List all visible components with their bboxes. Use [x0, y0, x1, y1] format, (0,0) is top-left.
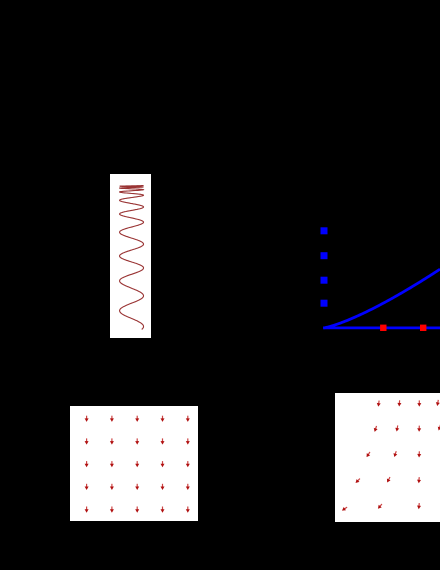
spin arrow R13 [385, 476, 391, 483]
spin arrow L r1c1 [85, 416, 89, 422]
blue dispersion curve [323, 269, 440, 328]
spin arrow L r4c3 [135, 484, 139, 490]
spin arrow L r4c1 [85, 484, 89, 490]
spin arrow R12 [354, 477, 361, 484]
spin arrow R17 [417, 502, 422, 509]
spin arrow R3 [417, 400, 421, 406]
spin arrow R6 [395, 425, 400, 432]
spin arrow R8 [437, 424, 440, 431]
spin arrow R11 [417, 451, 421, 457]
spin arrow L r3c5 [186, 461, 190, 467]
spin arrow R14 [417, 476, 421, 482]
spin arrow L r3c1 [85, 461, 89, 467]
red marker on line 1 [380, 325, 386, 331]
bottom-right spin panel (white, cut at image edge) [335, 393, 440, 522]
spin arrow L r3c2 [110, 461, 114, 467]
blue level marker 4 [321, 300, 328, 307]
spin arrow R9 [365, 450, 372, 457]
spin arrow L r2c3 [135, 438, 139, 444]
dispersion plot (on black) [290, 195, 440, 340]
blue level marker 1 [321, 227, 328, 234]
blue level marker 2 [321, 252, 328, 259]
spin arrow R2 [397, 400, 401, 406]
spin arrow L r4c5 [186, 484, 190, 490]
spin arrow L r1c3 [135, 416, 139, 422]
spin arrow L r5c3 [135, 507, 139, 513]
spin arrow L r3c4 [161, 461, 165, 467]
spin arrow L r1c2 [110, 416, 114, 422]
spin arrow L r3c3 [135, 461, 139, 467]
spring panel (white figure background) [110, 174, 151, 339]
spin arrow L r2c2 [110, 438, 114, 444]
spin arrow L r5c2 [110, 507, 114, 513]
spin arrow L r2c1 [85, 438, 89, 444]
spin arrow L r4c2 [110, 484, 114, 490]
spin arrow R1 [376, 400, 381, 407]
blue level marker 3 [321, 277, 328, 284]
blue horizontal axis line [323, 326, 440, 329]
spin arrow L r2c4 [161, 438, 165, 444]
red marker on line 2 [420, 325, 426, 331]
spin arrow L r5c1 [85, 507, 89, 513]
bottom-left spin panel (white) [70, 406, 198, 521]
spin arrow L r4c4 [161, 484, 165, 490]
spin arrow R7 [417, 425, 421, 431]
spin arrow R4 [435, 399, 440, 406]
spin arrow L r5c4 [161, 507, 165, 513]
spin arrow L r1c5 [186, 416, 190, 422]
spin arrow R5 [373, 425, 379, 432]
spin arrow L r5c5 [186, 507, 190, 513]
spring (hanging slinky coil) [120, 185, 144, 329]
spin arrow R15 [341, 505, 348, 512]
spin arrow R16 [376, 502, 383, 509]
spin arrow R10 [392, 450, 398, 457]
spin arrow L r2c5 [186, 438, 190, 444]
spin arrow L r1c4 [161, 416, 165, 422]
